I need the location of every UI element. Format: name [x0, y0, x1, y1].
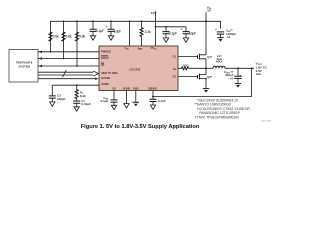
junction COMP RC branch: [76, 84, 78, 86]
note component sourcing list: [194, 98, 250, 119]
ground open-triangle SGND: [124, 104, 129, 108]
svg-text:Figure 1. 5V to 1.8V-3.5V Supp: Figure 1. 5V to 1.8V-3.5V Supply Applica…: [81, 124, 200, 130]
svg-text:SYSTEM: SYSTEM: [18, 64, 30, 68]
ground open-triangle under SENSE cap: [150, 105, 155, 109]
svg-text:OUTEN: OUTEN: [101, 76, 110, 80]
arrowhead into system PWRGD: [38, 51, 42, 53]
svg-text:×4: ×4: [227, 35, 231, 39]
junction COUT node: [237, 67, 239, 69]
junction R2 on FAULT line: [63, 58, 65, 60]
capacitor 0.1uF PVCC bypass: [163, 26, 178, 38]
capacitor CIN 1200uF x4 polarized: [215, 28, 236, 39]
wire PWRGD to system: [38, 51, 99, 53]
svg-text:PWRGD: PWRGD: [101, 49, 111, 53]
svg-text:G1: G1: [173, 55, 177, 59]
svg-text:14A: 14A: [256, 72, 261, 76]
svg-text:0.1µF: 0.1µF: [96, 29, 104, 33]
wire FAULT to system: [38, 58, 99, 60]
svg-text:5.6k: 5.6k: [66, 35, 72, 39]
transistor Q2 bottom N-MOSFET: [198, 74, 214, 80]
wire COMP network line: [52, 84, 99, 86]
svg-text:5.6k: 5.6k: [53, 35, 59, 39]
capacitor 0.1uF rail bypass: [90, 20, 105, 35]
svg-text:2.2k: 2.2k: [145, 30, 151, 34]
junction R3 on OT line: [76, 65, 78, 67]
svg-text:0.1µF: 0.1µF: [101, 99, 109, 103]
svg-text:8.2k: 8.2k: [80, 94, 86, 98]
ground open-triangle under 10uF: [108, 36, 113, 40]
wire SENSE pin down: [152, 91, 154, 100]
capacitor 10uF rail bypass polarized: [106, 20, 122, 35]
resistor R pull-up 2 5.6k: [62, 20, 72, 58]
svg-text:G2: G2: [173, 75, 177, 79]
resistor 20 ohm IFB: [182, 64, 190, 70]
svg-text:MAX: MAX: [216, 60, 223, 64]
node VCC wire from rail to chip: [129, 20, 131, 46]
wire GND to ground: [135, 91, 137, 103]
junction SENSE node: [152, 96, 154, 98]
wire SGND to ground: [126, 91, 128, 104]
svg-text:††AVX TPSE337M006R0100: ††AVX TPSE337M006R0100: [195, 116, 239, 120]
wire 12V bypass branch: [155, 26, 186, 28]
ground open-triangle under CC: [74, 107, 79, 111]
svg-text:20Ω: 20Ω: [183, 64, 189, 68]
svg-text:10µF: 10µF: [189, 32, 196, 36]
svg-text:GND: GND: [133, 87, 139, 91]
svg-text:+: +: [215, 28, 217, 32]
wire remote sense line to VOUT: [153, 68, 252, 96]
capacitor COUT 330uF x7 polarized: [224, 68, 242, 83]
svg-text:SENSE: SENSE: [148, 87, 157, 91]
svg-text:×7: ×7: [230, 76, 234, 80]
wire Q2 drain from switch node: [205, 68, 207, 88]
wire G1 to Q1 gate: [178, 56, 198, 58]
wire inductor to VOUT node: [225, 67, 254, 69]
ground bar-triangle GND: [133, 102, 139, 106]
svg-text:0.1µF: 0.1µF: [169, 31, 177, 35]
arrowhead into system OT: [38, 65, 42, 67]
junction R1 on PWRGD line: [50, 51, 52, 53]
wire OUTEN from system: [38, 78, 96, 80]
ground open-triangle under CSS: [111, 105, 116, 109]
capacitor C3 100pF on COMP: [49, 85, 66, 102]
wire 12V to PVCC pin: [155, 11, 157, 46]
resistor R pull-up 3 5.6k: [76, 20, 86, 66]
svg-text:FAULT: FAULT: [101, 56, 109, 60]
transistor Q1 top N-MOSFET: [198, 54, 214, 60]
svg-text:5.6k: 5.6k: [79, 35, 85, 39]
bus width slash: [63, 70, 67, 77]
capacitor 10uF PVCC bypass polarized: [181, 27, 197, 38]
svg-text:5V: 5V: [207, 9, 211, 13]
svg-text:0.1µF: 0.1µF: [158, 99, 166, 103]
svg-text:OT: OT: [101, 63, 105, 67]
svg-text:0.01µF: 0.01µF: [81, 102, 91, 106]
svg-text:100pF: 100pF: [57, 97, 66, 101]
svg-text:COMP: COMP: [101, 82, 109, 86]
wire IFB line: [178, 67, 206, 69]
ground open-triangle under 0.1uF: [90, 36, 95, 40]
ground open-triangle under PVCC 10uF: [183, 38, 188, 42]
wire Q1 drain-source vertical: [205, 21, 207, 68]
ground open-triangle under PVCC 0.1uF: [163, 38, 168, 42]
arrowhead into system FAULT: [38, 57, 42, 59]
resistor R pull-up 1 5.6k: [49, 32, 59, 41]
op-amp U1 LTC1753 controller body: [99, 46, 178, 91]
ground bar-triangle Q2 source: [203, 89, 209, 93]
arrowhead into chip OUTEN: [95, 78, 99, 80]
junction switch node: [205, 67, 207, 69]
capacitor 0.1uF on SENSE: [150, 99, 166, 105]
Pentium II system box: [9, 50, 38, 83]
capacitor CSS 0.1uF on SS pin: [101, 91, 118, 106]
svg-text:1753 • F01: 1753 • F01: [261, 120, 272, 122]
wire VIN to rail and Q1 drain: [205, 12, 207, 22]
resistor RC 8.2k: [75, 85, 86, 98]
bus arrowhead into chip: [93, 71, 98, 76]
inductor L1 2uH: [206, 54, 225, 68]
svg-text:10µF: 10µF: [114, 29, 121, 33]
ground bar-triangle under COUT: [235, 84, 241, 88]
wire OT to system: [38, 65, 99, 67]
junction Q2 source body: [205, 78, 207, 80]
resistor 2.2k IMAX to rail: [140, 20, 151, 46]
pin label OT (active low): [101, 63, 105, 67]
wire 5V top rail: [51, 21, 221, 52]
node VIN 5V input label: [207, 5, 212, 12]
svg-text:LTC1753: LTC1753: [129, 67, 140, 71]
svg-text:+: +: [181, 27, 183, 31]
svg-text:Q1*: Q1*: [207, 55, 213, 59]
wire G2 to Q2 gate: [178, 76, 198, 78]
svg-text:Q2*: Q2*: [207, 75, 213, 79]
svg-text:VID0 TO VID4: VID0 TO VID4: [101, 71, 118, 75]
node VOUT output label: [256, 62, 268, 77]
junction sense tap node: [251, 67, 253, 69]
svg-text:SS: SS: [112, 87, 116, 91]
bus VID0-VID4 double line: [38, 72, 93, 75]
ground open-triangle under C3: [50, 102, 55, 106]
svg-text:+: +: [106, 25, 108, 29]
svg-text:12V: 12V: [151, 11, 157, 15]
pin label FAULT (active low): [101, 56, 109, 60]
ground bar-triangle under CIN: [217, 38, 223, 42]
svg-text:SGND: SGND: [123, 87, 131, 91]
capacitor CC 0.01uF: [73, 99, 91, 107]
